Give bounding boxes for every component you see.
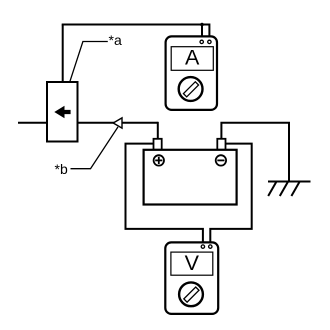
component *a body (fusible link box)	[47, 82, 78, 142]
voltmeter V body	[165, 242, 218, 314]
battery - post	[217, 139, 225, 150]
battery + post	[154, 139, 162, 150]
battery - marking	[216, 155, 226, 165]
wire: battery - post up and right to ground	[221, 123, 289, 182]
ammeter A right terminal	[208, 40, 211, 43]
voltmeter V dial	[179, 282, 203, 306]
battery BT1 body	[144, 150, 237, 205]
wire: junction down to ammeter left terminal	[201, 25, 203, 42]
battery + marking	[154, 155, 164, 165]
voltmeter V left terminal	[201, 245, 204, 248]
voltmeter V right terminal	[209, 245, 212, 248]
wire: main line down to battery + post	[157, 122, 159, 139]
label *a	[109, 32, 122, 48]
ammeter A dial	[179, 77, 203, 101]
junction dot on top rail	[200, 23, 204, 27]
svg-text:V: V	[185, 251, 200, 275]
svg-text:*a: *a	[109, 32, 122, 48]
wire: main horizontal line into component	[18, 122, 158, 124]
ammeter A body	[166, 36, 217, 110]
label *b	[55, 161, 68, 177]
ammeter A left terminal	[200, 40, 203, 43]
wire: + post to voltmeter left terminal (sense loop left)	[126, 144, 203, 245]
arrow (current direction) inside component	[54, 106, 70, 118]
probe point *b (open arrowhead on main wire)	[113, 118, 122, 128]
svg-text:A: A	[185, 46, 200, 70]
ammeter A display	[171, 47, 213, 71]
voltmeter V label	[185, 251, 200, 275]
wire: - post to voltmeter right terminal (sense loop right)	[210, 144, 251, 245]
wire: component top up to top rail	[62, 25, 64, 83]
ground	[268, 182, 311, 197]
label *b leader line	[71, 127, 119, 169]
wire: top rail end down to ammeter right terminal	[208, 24, 210, 42]
label *a leader line	[70, 42, 108, 82]
ammeter A label	[185, 46, 200, 70]
wire: top rail to ammeter	[62, 24, 210, 26]
voltmeter V display	[171, 252, 213, 275]
svg-text:*b: *b	[55, 161, 68, 177]
